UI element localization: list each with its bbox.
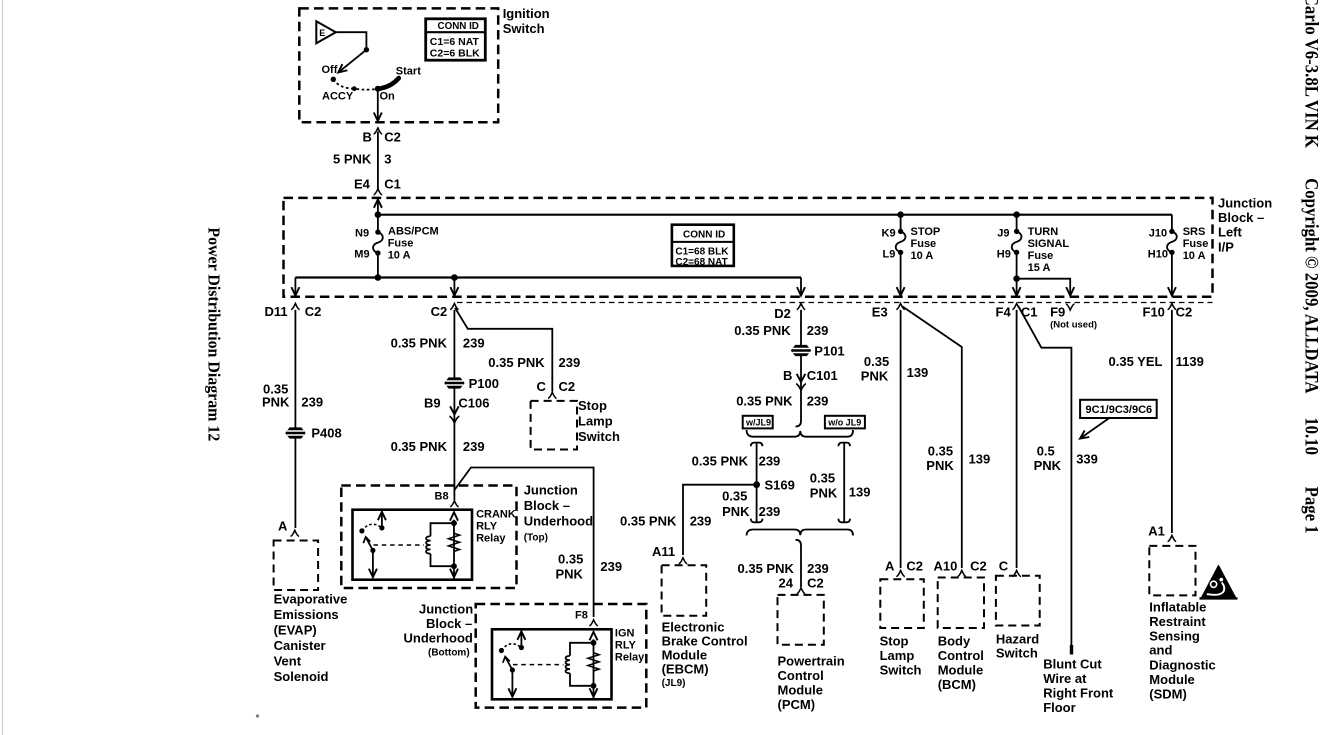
svg-text:Canister: Canister bbox=[274, 638, 326, 653]
branch wire right (w/o JL9) bbox=[843, 443, 845, 523]
branch bar left bottom bbox=[751, 519, 763, 523]
svg-text:Solenoid: Solenoid bbox=[274, 669, 329, 684]
svg-text:239: 239 bbox=[301, 395, 323, 410]
svg-text:Power Distribution Diagram 12: Power Distribution Diagram 12 bbox=[204, 227, 224, 441]
branch bar right bottom bbox=[838, 519, 850, 523]
fuse TURN SIGNAL 15A bbox=[997, 211, 1070, 274]
wire fuse to lower bus bbox=[377, 253, 379, 277]
stop lamp switch label (lower) bbox=[880, 634, 922, 678]
svg-text:w/o JL9: w/o JL9 bbox=[827, 417, 861, 427]
svg-text:Blunt Cut: Blunt Cut bbox=[1043, 657, 1102, 672]
BCM label bbox=[938, 634, 984, 693]
svg-text:339: 339 bbox=[1076, 452, 1098, 467]
svg-text:Powertrain: Powertrain bbox=[778, 654, 845, 669]
branch wire to stop lamp switch bbox=[455, 308, 552, 392]
CONN ID box junction block bbox=[672, 225, 734, 268]
connector C (hazard) bbox=[999, 559, 1021, 577]
connector F4 C1 F9 bbox=[996, 304, 1098, 331]
svg-text:0.35 PNK: 0.35 PNK bbox=[692, 454, 749, 469]
svg-text:H9: H9 bbox=[997, 249, 1011, 261]
svg-text:N9: N9 bbox=[355, 228, 369, 240]
svg-text:239: 239 bbox=[807, 323, 829, 338]
node C2-bus bbox=[451, 274, 458, 281]
stop lamp switch label (upper) bbox=[578, 398, 620, 444]
svg-text:(PCM): (PCM) bbox=[778, 697, 816, 712]
svg-text:15 A: 15 A bbox=[1028, 262, 1051, 274]
svg-text:(SDM): (SDM) bbox=[1149, 687, 1187, 702]
svg-text:Stop: Stop bbox=[880, 634, 909, 649]
svg-text:On: On bbox=[380, 91, 396, 103]
scan speck bbox=[256, 714, 259, 717]
svg-text:C2: C2 bbox=[384, 130, 401, 145]
svg-text:(Top): (Top) bbox=[524, 533, 548, 544]
svg-text:PNK: PNK bbox=[1034, 458, 1062, 473]
svg-text:Carlo V6-3.8L VIN K: Carlo V6-3.8L VIN K bbox=[1302, 0, 1321, 148]
svg-text:RLY: RLY bbox=[476, 521, 498, 533]
svg-text:Block –: Block – bbox=[426, 616, 472, 631]
ignition switch label bbox=[503, 6, 550, 36]
svg-text:Fuse: Fuse bbox=[1183, 238, 1209, 250]
option tag w/JL9 bbox=[743, 416, 773, 429]
svg-text:Fuse: Fuse bbox=[911, 238, 937, 250]
svg-text:CRANK: CRANK bbox=[476, 509, 516, 521]
svg-text:F8: F8 bbox=[575, 610, 588, 622]
connector B8 bbox=[435, 491, 459, 507]
svg-text:Switch: Switch bbox=[880, 663, 922, 678]
label 0.35 PNK 239 (EBCM) bbox=[620, 514, 711, 529]
exit arrow C2 bbox=[450, 278, 458, 296]
svg-text:0.5: 0.5 bbox=[1037, 444, 1055, 459]
PCM box bbox=[778, 595, 824, 645]
svg-text:B9: B9 bbox=[424, 396, 441, 411]
exit arrow E3 bbox=[897, 252, 905, 295]
svg-text:Wire at: Wire at bbox=[1043, 671, 1087, 686]
svg-text:Switch: Switch bbox=[996, 646, 1038, 661]
option tag w/o JL9 bbox=[825, 416, 865, 429]
right margin version bbox=[1302, 417, 1321, 455]
connector C C2 (stop lamp) bbox=[537, 379, 576, 398]
svg-text:C2=68 NAT: C2=68 NAT bbox=[675, 257, 727, 268]
svg-text:C2: C2 bbox=[431, 304, 448, 319]
ignition switch box bbox=[299, 8, 498, 122]
SDM box bbox=[1149, 546, 1195, 596]
wire E3 to stop lamp switch bbox=[900, 310, 902, 568]
connector A1 (SDM) bbox=[1148, 524, 1176, 542]
svg-text:SRS: SRS bbox=[1183, 226, 1206, 238]
label 0.35 PNK 139 (BCM) bbox=[926, 444, 990, 474]
EVAP module box bbox=[274, 541, 319, 591]
branch wire to blunt cut bbox=[1018, 306, 1071, 645]
svg-text:Module: Module bbox=[778, 683, 824, 698]
svg-text:F4: F4 bbox=[996, 305, 1012, 320]
svg-text:Switch: Switch bbox=[578, 429, 620, 444]
wire S169 to EBCM bbox=[683, 485, 757, 555]
splice P100 bbox=[444, 376, 499, 391]
svg-text:E3: E3 bbox=[872, 305, 888, 320]
svg-text:239: 239 bbox=[559, 355, 581, 370]
connector D2 bbox=[774, 304, 805, 322]
ACCY terminal bbox=[352, 86, 357, 91]
svg-text:C2: C2 bbox=[559, 379, 576, 394]
svg-text:PNK: PNK bbox=[926, 458, 954, 473]
hazard switch box bbox=[996, 576, 1040, 626]
svg-text:139: 139 bbox=[969, 452, 991, 467]
connector B C2 bbox=[363, 128, 401, 145]
svg-text:Switch: Switch bbox=[503, 21, 545, 36]
blunt cut end bbox=[1070, 645, 1073, 655]
svg-text:10 A: 10 A bbox=[388, 250, 411, 262]
svg-text:D2: D2 bbox=[774, 306, 791, 321]
svg-text:B: B bbox=[363, 130, 372, 145]
svg-text:ACCY: ACCY bbox=[322, 91, 354, 103]
svg-text:P100: P100 bbox=[469, 376, 499, 391]
svg-text:0.35 PNK: 0.35 PNK bbox=[391, 336, 448, 351]
wire branch to F9 bbox=[1017, 279, 1071, 295]
svg-text:Module: Module bbox=[938, 663, 984, 678]
label 0.35 YEL 1139 bbox=[1109, 354, 1204, 369]
branch wire to BCM bbox=[903, 307, 962, 569]
svg-text:RLY: RLY bbox=[615, 640, 637, 652]
svg-text:CONN ID: CONN ID bbox=[683, 230, 725, 241]
stop lamp switch box (upper) bbox=[531, 401, 577, 450]
svg-text:Brake Control: Brake Control bbox=[662, 634, 748, 649]
svg-text:ABS/PCM: ABS/PCM bbox=[388, 226, 439, 238]
svg-text:Off: Off bbox=[322, 64, 338, 76]
svg-text:P408: P408 bbox=[311, 426, 341, 441]
connector E4 C1 bbox=[354, 177, 401, 195]
branch wire left (w/JL9) bbox=[756, 443, 758, 523]
splice node S169 bbox=[753, 478, 795, 493]
junction block underhood bottom box bbox=[476, 604, 647, 708]
label 0.35 PNK 139 (w/o JL9) bbox=[810, 471, 871, 501]
connector A10 C2 (BCM) bbox=[934, 559, 987, 577]
svg-text:10.10: 10.10 bbox=[1302, 417, 1321, 455]
svg-text:0.35: 0.35 bbox=[558, 552, 583, 567]
relay CRANK RLY bbox=[353, 510, 473, 580]
svg-text:1139: 1139 bbox=[1176, 354, 1204, 369]
svg-text:Hazard: Hazard bbox=[996, 632, 1039, 647]
thick arc On-Start bbox=[378, 76, 401, 89]
option split brace bottom bbox=[747, 530, 853, 536]
svg-text:IGN: IGN bbox=[615, 628, 635, 640]
branch bar left top bbox=[751, 443, 763, 447]
top bus bbox=[378, 214, 1172, 216]
svg-text:A: A bbox=[885, 559, 895, 574]
svg-text:239: 239 bbox=[600, 559, 622, 574]
svg-text:Electronic: Electronic bbox=[662, 620, 725, 635]
svg-text:9C1/9C3/9C6: 9C1/9C3/9C6 bbox=[1086, 404, 1153, 416]
wire 5 PNK 3 bbox=[333, 132, 392, 190]
svg-text:I/P: I/P bbox=[1218, 240, 1234, 255]
relay IGN RLY bbox=[492, 629, 612, 699]
svg-text:F9: F9 bbox=[1050, 305, 1065, 320]
svg-text:C2: C2 bbox=[1176, 305, 1193, 320]
svg-text:(JL9): (JL9) bbox=[662, 678, 686, 689]
wire C2 down to B8 bbox=[453, 310, 455, 500]
switch arm to Off bbox=[336, 50, 367, 76]
svg-text:Evaporative: Evaporative bbox=[274, 592, 348, 607]
connector F10 C2 bbox=[1143, 304, 1193, 320]
svg-text:C1: C1 bbox=[1021, 305, 1038, 320]
hazard switch label bbox=[996, 632, 1039, 661]
svg-text:Sensing: Sensing bbox=[1149, 629, 1200, 644]
svg-text:L9: L9 bbox=[883, 249, 896, 261]
connector A (EVAP) bbox=[278, 519, 299, 537]
svg-text:C2: C2 bbox=[970, 559, 987, 574]
branch wire to IGN relay F8 bbox=[454, 468, 593, 618]
connector B C101 bbox=[783, 368, 838, 390]
svg-text:Junction: Junction bbox=[1218, 196, 1272, 211]
label 0.35 PNK 239 (above S169) bbox=[692, 454, 781, 469]
svg-text:(Not used): (Not used) bbox=[1050, 320, 1097, 331]
svg-text:A11: A11 bbox=[652, 544, 675, 559]
svg-text:0.35 PNK: 0.35 PNK bbox=[738, 561, 795, 576]
svg-text:C2: C2 bbox=[906, 559, 923, 574]
junction block underhood top label bbox=[524, 483, 593, 544]
svg-text:239: 239 bbox=[759, 504, 781, 519]
junction block underhood bottom label bbox=[404, 602, 474, 659]
pivot node bbox=[364, 47, 369, 52]
svg-text:0.35: 0.35 bbox=[810, 471, 835, 486]
svg-text:0.35 PNK: 0.35 PNK bbox=[734, 323, 791, 338]
label 0.35 PNK 239 (below C101) bbox=[736, 394, 828, 409]
svg-text:A: A bbox=[278, 519, 288, 534]
PCM label bbox=[778, 654, 845, 713]
svg-text:E: E bbox=[319, 28, 325, 38]
svg-text:5 PNK: 5 PNK bbox=[333, 152, 372, 167]
svg-text:C: C bbox=[999, 559, 1009, 574]
svg-text:10 A: 10 A bbox=[911, 250, 934, 262]
scan edge line bbox=[2, 0, 4, 735]
label 0.35 PNK 239 (below S169) bbox=[722, 489, 780, 520]
junction block left I/P box bbox=[284, 198, 1213, 297]
splice P408 bbox=[285, 426, 342, 441]
svg-text:B: B bbox=[783, 368, 792, 383]
svg-text:CONN ID: CONN ID bbox=[438, 21, 479, 32]
svg-text:239: 239 bbox=[463, 336, 485, 351]
branch bar right top bbox=[838, 443, 850, 447]
svg-text:Ignition: Ignition bbox=[503, 6, 550, 21]
svg-text:C101: C101 bbox=[807, 368, 838, 383]
exit arrow F4 bbox=[1013, 252, 1021, 295]
svg-text:Control: Control bbox=[938, 648, 984, 663]
SDM label bbox=[1149, 600, 1215, 702]
exit arrow F9 bbox=[1066, 287, 1074, 296]
wire end hook top bbox=[796, 421, 802, 427]
svg-text:Body: Body bbox=[938, 634, 971, 649]
blunt cut label bbox=[1043, 657, 1114, 716]
label 0.35 PNK 239 (PCM) bbox=[738, 561, 829, 576]
stop lamp switch box (lower) bbox=[880, 579, 924, 628]
wire F4 to hazard switch bbox=[1016, 310, 1018, 568]
fuse STOP 10A bbox=[882, 211, 941, 262]
entry arrow into block bbox=[374, 199, 382, 232]
svg-text:SIGNAL: SIGNAL bbox=[1028, 238, 1070, 250]
svg-text:(EBCM): (EBCM) bbox=[662, 662, 709, 677]
svg-text:J9: J9 bbox=[997, 228, 1009, 240]
svg-text:Relay: Relay bbox=[476, 533, 506, 545]
svg-text:PNK: PNK bbox=[722, 504, 750, 519]
svg-text:Underhood: Underhood bbox=[404, 631, 473, 646]
svg-text:Lamp: Lamp bbox=[578, 414, 613, 429]
svg-text:Restraint: Restraint bbox=[1149, 614, 1206, 629]
connector A11 bbox=[652, 544, 687, 564]
callout 9C1/9C3/9C6 bbox=[1078, 400, 1157, 442]
svg-text:0.35 PNK: 0.35 PNK bbox=[488, 355, 545, 370]
svg-text:M9: M9 bbox=[354, 249, 369, 261]
svg-text:Page 1: Page 1 bbox=[1302, 487, 1321, 534]
svg-text:Right Front: Right Front bbox=[1043, 686, 1114, 701]
svg-text:Module: Module bbox=[662, 648, 708, 663]
BCM box bbox=[938, 578, 984, 629]
svg-text:Lamp: Lamp bbox=[880, 648, 915, 663]
svg-text:TURN: TURN bbox=[1028, 226, 1059, 238]
CRANK relay label bbox=[476, 509, 516, 545]
thin connector dashed line bbox=[457, 302, 1213, 304]
dashed detent arc Off-ACCY-On bbox=[333, 79, 378, 89]
option split brace top bbox=[747, 430, 853, 437]
svg-text:239: 239 bbox=[807, 561, 829, 576]
label 0.35 PNK 139 (E3) bbox=[861, 354, 929, 384]
node bus-ign bbox=[375, 211, 382, 218]
svg-text:C: C bbox=[537, 379, 547, 394]
right margin title part 1 bbox=[1302, 0, 1321, 148]
svg-text:Junction: Junction bbox=[524, 483, 578, 498]
wire start hook bottom bbox=[796, 540, 802, 587]
svg-text:Emissions: Emissions bbox=[274, 607, 339, 622]
svg-text:P101: P101 bbox=[814, 344, 844, 359]
label 0.35 PNK 239 (D11) bbox=[262, 382, 323, 410]
svg-text:139: 139 bbox=[849, 485, 871, 500]
connector F9 stub bbox=[1066, 304, 1075, 310]
Off terminal bbox=[331, 77, 336, 82]
svg-text:D11: D11 bbox=[265, 304, 288, 319]
svg-text:139: 139 bbox=[907, 365, 929, 380]
SRS warning triangle bbox=[1200, 566, 1238, 599]
svg-text:C1: C1 bbox=[384, 177, 401, 192]
wire from E to pivot bbox=[336, 32, 367, 50]
connector B9 C106 bbox=[424, 396, 489, 423]
svg-text:C2: C2 bbox=[305, 304, 322, 319]
connector A C2 (stop lamp switch) bbox=[885, 559, 923, 577]
svg-text:Block –: Block – bbox=[524, 498, 570, 513]
svg-text:Junction: Junction bbox=[419, 602, 473, 617]
svg-text:A10: A10 bbox=[934, 559, 958, 574]
wire On down bbox=[374, 89, 382, 121]
svg-text:Control: Control bbox=[778, 668, 824, 683]
energy source triangle E bbox=[316, 21, 336, 43]
svg-text:0.35: 0.35 bbox=[864, 354, 889, 369]
label 0.5 PNK 339 bbox=[1034, 444, 1098, 474]
connector D11 C2 bbox=[265, 304, 322, 320]
svg-text:Fuse: Fuse bbox=[388, 238, 414, 250]
svg-text:K9: K9 bbox=[882, 228, 896, 240]
exit arrow D11 bbox=[291, 278, 299, 296]
EVAP label bbox=[274, 592, 348, 685]
connector E3 bbox=[872, 304, 905, 320]
svg-text:0.35: 0.35 bbox=[722, 489, 747, 504]
EBCM label bbox=[662, 620, 748, 690]
IGN relay label bbox=[615, 628, 645, 664]
svg-text:Left: Left bbox=[1218, 225, 1243, 240]
svg-text:0.35 YEL: 0.35 YEL bbox=[1109, 354, 1163, 369]
svg-text:0.35 PNK: 0.35 PNK bbox=[391, 439, 448, 454]
CONN ID box ignition bbox=[426, 19, 486, 60]
svg-text:Underhood: Underhood bbox=[524, 514, 593, 529]
exit arrow D2 bbox=[797, 278, 805, 296]
EBCM box bbox=[662, 565, 707, 616]
svg-text:Inflatable: Inflatable bbox=[1149, 600, 1206, 615]
On terminal bbox=[375, 86, 381, 92]
svg-text:PNK: PNK bbox=[861, 369, 889, 384]
svg-text:Stop: Stop bbox=[578, 398, 607, 413]
connector 24 C2 (PCM) bbox=[779, 576, 824, 594]
svg-text:B8: B8 bbox=[435, 491, 449, 503]
svg-text:Floor: Floor bbox=[1043, 700, 1076, 715]
svg-text:C106: C106 bbox=[458, 396, 489, 411]
svg-text:C2: C2 bbox=[807, 576, 824, 591]
right margin page bbox=[1302, 487, 1321, 534]
svg-text:C2=6 BLK: C2=6 BLK bbox=[430, 47, 480, 59]
svg-text:3: 3 bbox=[384, 152, 391, 167]
svg-text:239: 239 bbox=[759, 454, 781, 469]
svg-text:and: and bbox=[1149, 643, 1172, 658]
svg-text:H10: H10 bbox=[1148, 249, 1168, 261]
node fuse-bus bbox=[375, 274, 382, 281]
right margin copyright bbox=[1302, 178, 1321, 394]
junction block underhood top box bbox=[341, 486, 516, 589]
svg-text:F10: F10 bbox=[1143, 305, 1165, 320]
svg-text:Diagnostic: Diagnostic bbox=[1149, 658, 1215, 673]
lower bus bbox=[295, 276, 801, 278]
svg-text:0.35 PNK: 0.35 PNK bbox=[736, 394, 793, 409]
svg-text:Module: Module bbox=[1149, 672, 1195, 687]
svg-text:Copyright © 2009, ALLDATA: Copyright © 2009, ALLDATA bbox=[1302, 178, 1321, 394]
connector F8 bbox=[575, 610, 598, 626]
svg-text:PNK: PNK bbox=[556, 567, 584, 582]
svg-text:239: 239 bbox=[690, 514, 712, 529]
svg-text:239: 239 bbox=[463, 439, 485, 454]
label 0.35 PNK 239 (C2 col) bbox=[391, 336, 485, 351]
svg-text:24: 24 bbox=[779, 576, 794, 591]
label 0.35 PNK 239 (below C106) bbox=[391, 439, 485, 454]
svg-text:10 A: 10 A bbox=[1183, 250, 1206, 262]
svg-text:PNK: PNK bbox=[262, 395, 290, 410]
svg-text:J10: J10 bbox=[1149, 228, 1167, 240]
wire D2 down bbox=[800, 310, 802, 421]
svg-text:Relay: Relay bbox=[615, 652, 645, 664]
svg-text:E4: E4 bbox=[354, 177, 371, 192]
svg-text:Block –: Block – bbox=[1218, 210, 1264, 225]
exit arrow F10 bbox=[1168, 252, 1176, 295]
label 0.35 PNK 239 (F8 wire) bbox=[556, 552, 623, 582]
wire F10 to SDM bbox=[1171, 310, 1173, 533]
svg-text:0.35: 0.35 bbox=[928, 444, 953, 459]
svg-text:0.35 PNK: 0.35 PNK bbox=[620, 514, 677, 529]
svg-text:C1=68 BLK: C1=68 BLK bbox=[675, 247, 729, 258]
junction block label bbox=[1218, 196, 1272, 255]
svg-text:C1=6 NAT: C1=6 NAT bbox=[430, 36, 480, 48]
svg-text:(Bottom): (Bottom) bbox=[428, 648, 470, 659]
svg-text:(BCM): (BCM) bbox=[938, 677, 976, 692]
svg-text:A1: A1 bbox=[1148, 524, 1165, 539]
svg-text:Start: Start bbox=[396, 66, 421, 78]
svg-text:w/JL9: w/JL9 bbox=[745, 417, 771, 427]
svg-text:Vent: Vent bbox=[274, 654, 302, 669]
label 0.35 PNK 239 (D2) bbox=[734, 323, 828, 338]
svg-text:Fuse: Fuse bbox=[1028, 250, 1054, 262]
svg-text:239: 239 bbox=[807, 394, 829, 409]
